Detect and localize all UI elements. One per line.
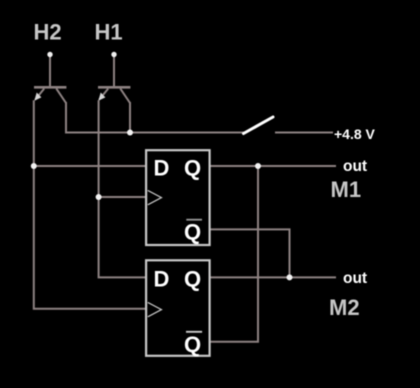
junction dot node D1 bbox=[31, 163, 37, 169]
svg-text:M1: M1 bbox=[331, 177, 362, 202]
emitter arrow H2 bbox=[34, 93, 41, 101]
svg-text:out: out bbox=[343, 270, 367, 287]
svg-text:M2: M2 bbox=[329, 295, 360, 320]
wire H2 emitter to M2 clock bbox=[34, 100, 147, 309]
wire M1 clock input bbox=[99, 196, 147, 198]
switch lever bbox=[244, 117, 274, 134]
flip-flop M1 bbox=[146, 150, 210, 245]
junction dot node CLK1 bbox=[96, 194, 102, 200]
svg-text:H1: H1 bbox=[95, 20, 123, 45]
svg-text:Q: Q bbox=[184, 155, 201, 180]
terminal dot H2 bbox=[47, 52, 52, 57]
wire M2 Q output bbox=[209, 276, 336, 278]
transistor H1 bbox=[98, 55, 130, 103]
wire H1 collector vertical bbox=[129, 102, 131, 133]
svg-text:H2: H2 bbox=[34, 20, 62, 45]
svg-text:Q: Q bbox=[184, 220, 201, 245]
svg-text:out: out bbox=[343, 158, 367, 175]
terminal dot H1 bbox=[111, 52, 116, 57]
emitter arrow H1 bbox=[98, 93, 105, 101]
wire +4.8V rail right bbox=[275, 132, 333, 134]
wire H1 emitter to M2 D bbox=[99, 100, 147, 277]
svg-text:D: D bbox=[154, 267, 170, 292]
junction dot collector H1 on rail bbox=[127, 130, 133, 136]
wire M1 Qbar to node Q2 bbox=[209, 229, 290, 277]
wire +4.8V rail left bbox=[66, 132, 246, 134]
wire M1 D input bbox=[34, 165, 147, 167]
wire M1 Q output bbox=[209, 165, 336, 167]
svg-text:Q: Q bbox=[184, 332, 201, 357]
svg-text:D: D bbox=[154, 155, 170, 180]
transistor H2 bbox=[34, 55, 66, 103]
junction dot node Q2 bbox=[287, 274, 293, 280]
flip-flop M2 bbox=[146, 260, 210, 357]
wire Q1 to M2 Qbar bbox=[209, 166, 258, 342]
svg-text:Q: Q bbox=[184, 267, 201, 292]
junction dot node Q1 bbox=[255, 163, 261, 169]
svg-text:+4.8 V: +4.8 V bbox=[334, 126, 376, 142]
wire H2 collector vertical bbox=[65, 102, 67, 134]
